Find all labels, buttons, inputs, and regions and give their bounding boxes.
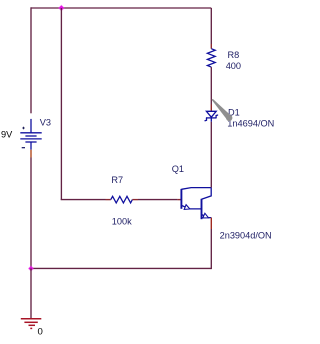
svg-text:100k: 100k	[112, 216, 132, 226]
battery V3	[20, 119, 41, 150]
pin Q1 emitter	[210, 218, 212, 229]
battery minus mark	[22, 147, 25, 149]
battery bottom pin	[30, 150, 32, 158]
svg-text:2n3904d/ON: 2n3904d/ON	[220, 230, 272, 240]
svg-text:R7: R7	[111, 175, 123, 185]
svg-text:1n4694/ON: 1n4694/ON	[227, 119, 274, 129]
pin D1 top	[210, 105, 212, 112]
wire ground stem	[30, 268, 32, 318]
wire left vertical lower	[30, 158, 32, 269]
wire R7 left	[61, 199, 106, 201]
wire R8 to diode	[210, 67, 212, 104]
wire left vertical upper	[30, 7, 32, 113]
wire bottom rail	[31, 267, 211, 269]
transistor Q1 darlington	[181, 188, 211, 220]
svg-text:400: 400	[226, 61, 241, 71]
resistor R8	[207, 49, 215, 67]
pin R7 left	[106, 199, 111, 201]
wire diode to collector	[210, 122, 212, 188]
svg-text:V3: V3	[40, 118, 51, 128]
svg-text:9V: 9V	[1, 130, 13, 140]
junction top	[58, 5, 65, 12]
pin Q1 base	[177, 199, 181, 201]
wire top rail	[31, 7, 211, 9]
wire second vertical	[60, 8, 62, 200]
ground 0 symbol	[21, 319, 42, 329]
wire emitter to bottom rail	[210, 229, 212, 269]
resistor R7	[111, 196, 133, 203]
diode D1 zener	[205, 111, 218, 122]
svg-text:Q1: Q1	[172, 164, 184, 174]
svg-text:0: 0	[38, 327, 43, 338]
battery plus mark	[22, 127, 24, 129]
pin R7 right	[132, 199, 138, 201]
pin R8 top	[210, 44, 212, 49]
wire right vertical top	[210, 8, 212, 44]
cursor arrow	[212, 99, 233, 121]
junction bottom-left	[28, 265, 34, 271]
svg-text:R8: R8	[228, 50, 240, 60]
wire R7 right to base	[138, 199, 177, 201]
